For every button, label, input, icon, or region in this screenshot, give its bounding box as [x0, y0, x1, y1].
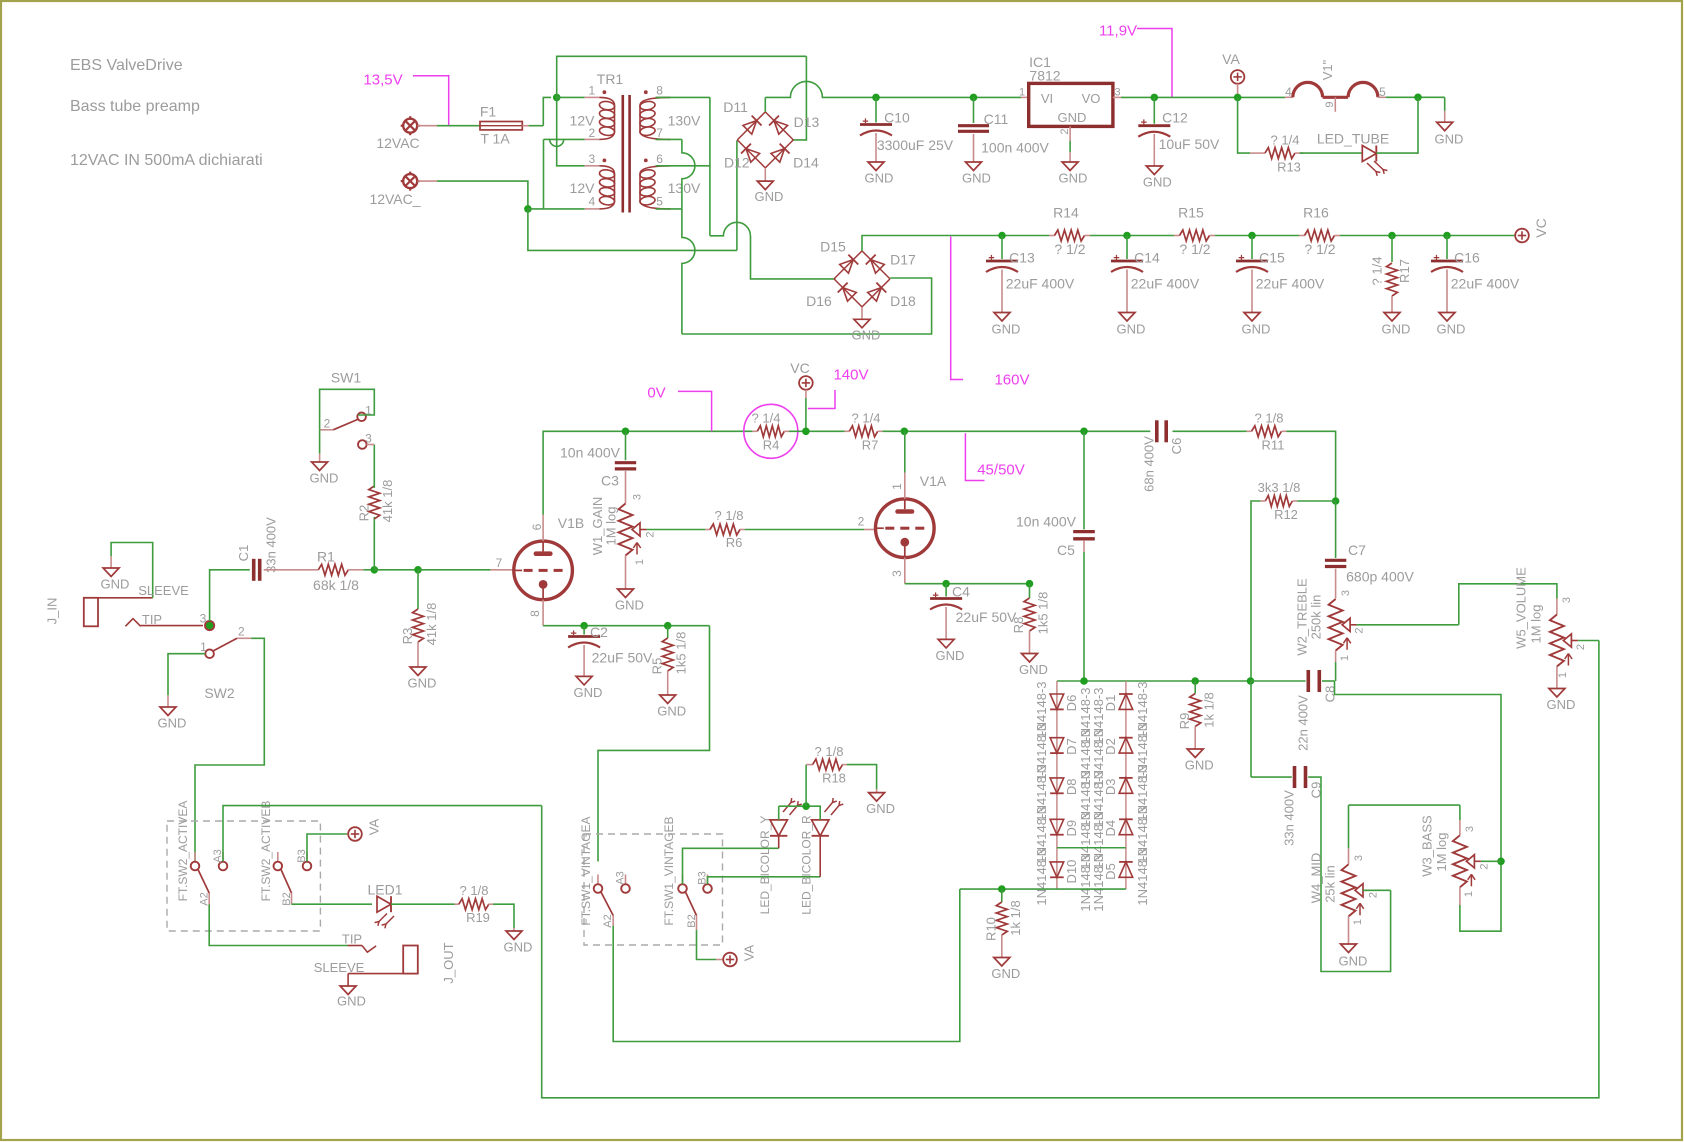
svg-text:FT.SW2_ACTIVEB: FT.SW2_ACTIVEB — [259, 801, 273, 902]
potentiometer W1_GAIN — [625, 471, 627, 504]
svg-text:V1B: V1B — [558, 515, 584, 531]
wire FT.SW2 B2 to LED1 — [291, 903, 293, 905]
svg-text:2: 2 — [1367, 892, 1379, 898]
capacitor C4 — [945, 584, 947, 597]
wire tip node to C1 — [210, 570, 250, 621]
ground under SW2 pin1 — [168, 654, 205, 696]
svg-text:1: 1 — [1463, 891, 1475, 897]
svg-text:22uF 50V: 22uF 50V — [592, 649, 653, 665]
ground under bridge2 — [861, 307, 863, 319]
svg-text:12V: 12V — [570, 112, 596, 128]
svg-text:T 1A: T 1A — [480, 131, 510, 147]
wire V1A plate pin1 — [904, 473, 906, 499]
svg-text:12V: 12V — [570, 180, 596, 196]
svg-text:6: 6 — [656, 152, 663, 166]
resistor R8 — [1029, 584, 1031, 598]
resistor R11 — [1247, 430, 1252, 432]
svg-text:R3: R3 — [400, 628, 415, 645]
svg-text:22uF 50V: 22uF 50V — [956, 609, 1017, 625]
svg-text:D16: D16 — [806, 293, 832, 309]
svg-text:? 1/4: ? 1/4 — [1370, 257, 1385, 286]
pad 12VAC — [403, 119, 417, 133]
svg-text:3: 3 — [1353, 855, 1365, 861]
svg-text:R4: R4 — [763, 438, 780, 453]
wire C8/C9 node down — [1250, 681, 1252, 777]
svg-text:D8: D8 — [1064, 778, 1079, 795]
wire W1 wiper to R6 — [647, 529, 706, 531]
IC1 pin2 to ground — [1069, 126, 1071, 141]
svg-text:Bass tube preamp: Bass tube preamp — [70, 98, 200, 115]
svg-text:GND: GND — [615, 598, 644, 613]
svg-text:3k3 1/8: 3k3 1/8 — [1258, 480, 1301, 495]
wire FT.SW1 B3 to LED_BICOLOR_R — [708, 877, 821, 884]
svg-text:TR1: TR1 — [597, 71, 624, 87]
wire IC1 output — [1113, 96, 1121, 98]
svg-text:VO: VO — [1082, 91, 1101, 106]
wire V1A cathode to C4 R8 — [904, 558, 906, 584]
diode bridge D15 D16 D17 D18 — [834, 251, 862, 279]
svg-text:22uF 400V: 22uF 400V — [1006, 275, 1075, 291]
svg-text:D9: D9 — [1064, 820, 1079, 837]
ground right of V1 — [1444, 111, 1446, 122]
svg-text:GND: GND — [1059, 171, 1088, 186]
svg-text:R5: R5 — [650, 658, 665, 675]
svg-text:GND: GND — [101, 577, 130, 592]
svg-text:250k lin: 250k lin — [1309, 595, 1324, 640]
terminal VA active — [348, 827, 362, 841]
diode bridge D11 D12 D13 D14 — [737, 112, 765, 140]
svg-text:GND: GND — [158, 716, 187, 731]
svg-text:2: 2 — [1059, 128, 1071, 134]
svg-text:5: 5 — [656, 195, 663, 209]
svg-text:GND: GND — [991, 966, 1020, 981]
svg-text:2: 2 — [644, 531, 656, 537]
svg-text:? 1/2: ? 1/2 — [1304, 241, 1335, 257]
resistor R1 — [318, 564, 348, 575]
svg-text:1: 1 — [1557, 672, 1569, 678]
wire W4 wiper stub — [1363, 889, 1391, 891]
diode D10 — [1050, 862, 1064, 877]
wire W2 wiper to W5_VOLUME — [1357, 624, 1459, 626]
svg-text:C7: C7 — [1348, 542, 1366, 558]
svg-text:B3: B3 — [696, 871, 708, 884]
resistor R18 — [805, 765, 807, 807]
resistor R2 — [373, 517, 375, 570]
capacitor C7 — [1335, 501, 1337, 558]
svg-text:+: + — [932, 590, 938, 602]
svg-text:VA: VA — [742, 944, 757, 961]
svg-text:D7: D7 — [1064, 738, 1079, 755]
ground under W5_VOLUME — [1556, 667, 1558, 689]
capacitor C11 — [970, 94, 978, 102]
wire to TR1 pin3 — [557, 97, 585, 165]
wire 12VAC live up and over to bridge D11-D14 right corner — [557, 56, 807, 97]
svg-text:1k5 1/8: 1k5 1/8 — [674, 632, 689, 675]
svg-text:R13: R13 — [1277, 160, 1301, 175]
svg-text:1N4148-3: 1N4148-3 — [1091, 854, 1106, 911]
svg-text:22n 400V: 22n 400V — [1296, 695, 1311, 751]
FT.SW1 A lever to A2 — [601, 892, 613, 916]
wire 12VAC to F1 — [418, 125, 438, 127]
svg-text:22uF 400V: 22uF 400V — [1131, 275, 1200, 291]
node V1A plate junction — [901, 428, 909, 436]
terminal VC above R4 — [799, 376, 813, 390]
svg-text:100n 400V: 100n 400V — [981, 139, 1049, 155]
capacitor C10 — [872, 94, 880, 102]
svg-text:R16: R16 — [1303, 204, 1329, 220]
TR1 core — [621, 95, 624, 213]
svg-text:GND: GND — [992, 322, 1021, 337]
ground under W1_GAIN — [625, 556, 627, 590]
diode chain D1-D5 right — [1125, 681, 1127, 889]
svg-text:1M log: 1M log — [1529, 604, 1544, 643]
capacitor C16 — [1446, 236, 1448, 260]
svg-text:1M log: 1M log — [1434, 832, 1449, 871]
svg-text:D11: D11 — [723, 99, 748, 115]
node 160V annotation — [951, 237, 963, 380]
wire TR1 pin6 stub — [656, 165, 710, 167]
svg-text:R17: R17 — [1397, 259, 1412, 283]
FT.SW1 B lever to B2 — [686, 892, 697, 916]
svg-text:4: 4 — [589, 195, 596, 209]
wire bottom rail to footswitch A2 bus — [613, 889, 960, 1041]
wire SW2 pin2 to footswitch A1 — [195, 638, 264, 861]
svg-text:C13: C13 — [1009, 249, 1035, 265]
wire FT.SW1 B1 to LED_BICOLOR_Y — [683, 848, 779, 884]
svg-text:13,5V: 13,5V — [363, 71, 402, 88]
svg-text:4: 4 — [1285, 85, 1292, 99]
capacitor C15 — [1251, 236, 1253, 260]
capacitor C2 — [583, 626, 585, 635]
triode V1A — [876, 499, 935, 558]
node C2 junction — [580, 622, 588, 630]
svg-text:D10: D10 — [1064, 860, 1079, 884]
svg-text:F1: F1 — [480, 103, 497, 119]
svg-text:11,9V: 11,9V — [1099, 22, 1137, 39]
svg-text:1k 1/8: 1k 1/8 — [1202, 692, 1217, 727]
svg-text:J_IN: J_IN — [45, 598, 60, 625]
svg-text:A3: A3 — [212, 849, 224, 862]
wire TR1 pin2 with hop — [550, 139, 585, 146]
capacitor C9 — [1251, 776, 1292, 778]
svg-text:GND: GND — [310, 471, 339, 486]
node R8 junction — [1026, 580, 1034, 588]
svg-text:45/50V: 45/50V — [977, 461, 1025, 478]
jack J_IN — [84, 598, 98, 627]
svg-text:1: 1 — [1339, 655, 1351, 661]
svg-text:3: 3 — [890, 570, 904, 577]
wire pins2+4 down to bridge D11-D14 left corner rail — [528, 209, 737, 251]
svg-text:3300uF 25V: 3300uF 25V — [877, 137, 954, 153]
svg-text:3: 3 — [365, 432, 372, 446]
node R10 junction — [998, 885, 1006, 893]
resistor R19 — [455, 903, 460, 905]
svg-text:GND: GND — [1546, 697, 1575, 712]
svg-text:12VAC_: 12VAC_ — [369, 191, 420, 207]
svg-text:7: 7 — [496, 556, 503, 570]
capacitor C1 — [252, 559, 256, 581]
svg-text:A2: A2 — [602, 914, 614, 927]
svg-text:C5: C5 — [1057, 542, 1075, 558]
wire C9 to W4 wiper — [1308, 777, 1390, 971]
svg-text:? 1/4: ? 1/4 — [752, 410, 781, 425]
wire TR1 pin8+pin6 to bridge D15-D18 left corner — [656, 96, 710, 98]
svg-text:? 1/8: ? 1/8 — [815, 744, 844, 759]
svg-text:C15: C15 — [1259, 249, 1285, 265]
resistor R5 — [667, 626, 669, 638]
J_IN sleeve wire to ground — [98, 597, 153, 599]
diode D7 — [1050, 738, 1064, 753]
wire R16 to VC terminal — [1340, 235, 1515, 237]
node W3 wiper junction — [1497, 858, 1505, 866]
svg-text:SLEEVE: SLEEVE — [138, 583, 189, 598]
footswitch FT.SW2 B3 pin — [306, 852, 308, 862]
diode D3 — [1119, 778, 1133, 793]
svg-text:R1: R1 — [317, 548, 335, 564]
wire C6 to R11 — [1173, 430, 1247, 432]
svg-text:LED_BICOLOR_R: LED_BICOLOR_R — [800, 815, 814, 915]
resistor R14 — [998, 232, 1006, 240]
svg-text:5: 5 — [1379, 85, 1386, 99]
resistor R6 — [705, 529, 710, 531]
potentiometer W5_VOLUME — [1556, 599, 1558, 615]
potentiometer W2_TREBLE — [1335, 569, 1337, 599]
svg-text:V1": V1" — [1320, 59, 1335, 80]
resistor R4 with magenta circle — [752, 430, 757, 432]
svg-text:GND: GND — [1117, 322, 1146, 337]
capacitor C13 — [1001, 236, 1003, 260]
diode D9 — [1050, 819, 1064, 834]
svg-text:D15: D15 — [820, 238, 846, 254]
svg-text:A3: A3 — [614, 871, 626, 884]
svg-text:C16: C16 — [1454, 249, 1480, 265]
footswitch FT.SW1 B3 pin — [707, 875, 709, 885]
svg-text:R7: R7 — [862, 438, 879, 453]
wire R7 to V1A and C6 — [883, 430, 1151, 432]
ground under C11 — [966, 162, 982, 171]
terminal VA vintage — [723, 953, 737, 967]
wire R18 to ground — [847, 765, 877, 789]
svg-text:2: 2 — [1478, 863, 1490, 869]
svg-text:? 1/2: ? 1/2 — [1179, 241, 1210, 257]
resistor R9 — [1194, 681, 1196, 694]
svg-text:R2: R2 — [357, 505, 372, 522]
svg-text:GND: GND — [504, 940, 533, 955]
svg-text:33n 400V: 33n 400V — [1282, 790, 1297, 846]
J_IN tip contact — [125, 619, 140, 627]
svg-text:W5_VOLUME: W5_VOLUME — [1514, 567, 1529, 649]
svg-text:1: 1 — [589, 84, 596, 98]
svg-text:LED_BICOLOR_Y: LED_BICOLOR_Y — [758, 816, 772, 915]
footswitch FT.SW1 A1 pin — [597, 875, 599, 885]
footswitch FT.SW2 B1 pin — [277, 852, 279, 862]
svg-text:V1A: V1A — [920, 473, 947, 489]
svg-text:R19: R19 — [466, 910, 490, 925]
wire C8 to W2 pin1 and W3 wiper — [1322, 680, 1335, 682]
svg-text:1M log: 1M log — [604, 506, 619, 545]
svg-text:8: 8 — [656, 84, 663, 98]
svg-text:C14: C14 — [1134, 249, 1160, 265]
wire W3 pin1 stub — [1459, 887, 1461, 905]
resistor R10 — [1001, 889, 1003, 902]
svg-text:C1: C1 — [236, 545, 251, 562]
svg-text:10uF 50V: 10uF 50V — [1159, 136, 1220, 152]
svg-text:FT.SW1_VINTAGEB: FT.SW1_VINTAGEB — [662, 816, 676, 925]
wire C5 to diode clipper rail — [1083, 541, 1085, 552]
svg-text:GND: GND — [866, 801, 895, 816]
svg-text:R9: R9 — [1177, 713, 1192, 730]
wire TR1 pin7+pin5 to bridge D15-D18 right corner — [656, 138, 682, 140]
svg-text:2: 2 — [238, 625, 245, 639]
svg-text:3: 3 — [1464, 826, 1476, 832]
node junction pins1+3 — [553, 94, 561, 102]
ground under W4_MID — [1348, 916, 1350, 944]
svg-text:1: 1 — [634, 559, 646, 565]
fuse F1 — [480, 122, 522, 130]
wire R19 to ground — [493, 904, 514, 928]
wire R12 left down to C8/C9 node — [1251, 501, 1261, 681]
svg-text:GND: GND — [962, 171, 991, 186]
footswitch FT.SW2 A3 pin — [222, 852, 224, 862]
svg-text:R18: R18 — [822, 771, 846, 786]
svg-text:22uF 400V: 22uF 400V — [1256, 275, 1325, 291]
wire W5 wiper to output bus — [1578, 640, 1599, 642]
svg-text:D17: D17 — [890, 252, 916, 268]
svg-text:SW1: SW1 — [331, 369, 362, 385]
svg-text:R12: R12 — [1274, 507, 1298, 522]
resistor R16 — [1299, 235, 1305, 237]
svg-text:C6: C6 — [1169, 438, 1184, 455]
svg-text:D13: D13 — [794, 114, 820, 130]
capacitor C5 — [1080, 428, 1088, 436]
svg-text:41k 1/8: 41k 1/8 — [424, 603, 439, 646]
node junction pins2+4 — [524, 205, 532, 213]
svg-text:FT.SW1_VINTAGEA: FT.SW1_VINTAGEA — [579, 816, 593, 925]
svg-text:680p 400V: 680p 400V — [1346, 568, 1414, 584]
svg-text:1N4148-3: 1N4148-3 — [1135, 848, 1150, 905]
svg-text:10n 400V: 10n 400V — [560, 444, 621, 460]
capacitor C8 — [1251, 680, 1306, 682]
capacitor C3 — [625, 431, 627, 460]
svg-text:7: 7 — [656, 126, 663, 140]
SW1 frame wire — [320, 389, 375, 430]
svg-text:W2_TREBLE: W2_TREBLE — [1295, 578, 1310, 656]
pad 12VAC_ — [403, 174, 417, 188]
svg-text:12VAC IN 500mA dichiarati: 12VAC IN 500mA dichiarati — [70, 152, 263, 169]
svg-text:1: 1 — [890, 483, 904, 490]
capacitor C14 — [1126, 236, 1128, 260]
svg-text:+: + — [1141, 117, 1147, 129]
svg-text:C4: C4 — [952, 583, 970, 599]
svg-text:R8: R8 — [1011, 617, 1026, 634]
svg-text:1k 1/8: 1k 1/8 — [1008, 900, 1023, 935]
svg-text:GND: GND — [1143, 175, 1172, 190]
svg-text:160V: 160V — [994, 371, 1029, 388]
svg-text:D18: D18 — [890, 293, 916, 309]
diode D5 — [1119, 862, 1133, 877]
svg-text:SW2: SW2 — [204, 685, 235, 701]
svg-text:? 1/4: ? 1/4 — [1271, 133, 1300, 148]
diode D4 — [1119, 819, 1133, 834]
svg-text:? 1/8: ? 1/8 — [1255, 410, 1284, 425]
svg-text:R6: R6 — [726, 535, 743, 550]
wire R4 to R7 — [789, 430, 845, 432]
node C3 junction — [622, 428, 630, 436]
svg-text:8: 8 — [528, 610, 542, 617]
svg-text:3: 3 — [1114, 86, 1120, 98]
capacitor C6 — [1155, 420, 1159, 442]
svg-text:B3: B3 — [296, 849, 308, 862]
ground under C10 — [868, 162, 884, 171]
svg-text:GND: GND — [1242, 322, 1271, 337]
potentiometer W3_BASS — [1349, 804, 1460, 806]
svg-text:68k 1/8: 68k 1/8 — [313, 577, 359, 593]
svg-text:3: 3 — [631, 494, 643, 500]
svg-text:B2: B2 — [686, 914, 698, 927]
svg-text:9: 9 — [1324, 101, 1336, 107]
diode chain D6-D10 left — [1056, 681, 1058, 889]
svg-text:LED1: LED1 — [367, 881, 402, 897]
wire FT.SW2 B3 to VA — [307, 834, 347, 862]
svg-text:LED_TUBE: LED_TUBE — [1317, 130, 1389, 146]
svg-text:VI: VI — [1041, 91, 1053, 106]
J_OUT sleeve to ground — [348, 973, 403, 975]
resistor R17 — [1391, 236, 1393, 263]
wire main 12V DC rail from bridge1 top — [764, 97, 766, 112]
footswitch FT.SW2 dashed box — [167, 821, 320, 931]
capacitor C12 — [1151, 94, 1159, 102]
svg-text:GND: GND — [337, 994, 366, 1009]
svg-text:W3_BASS: W3_BASS — [1420, 815, 1435, 877]
wire LED_TUBE to rail — [1376, 97, 1418, 153]
node R5 junction — [664, 622, 672, 630]
footswitch FT.SW1 dashed box — [584, 834, 723, 945]
svg-text:R15: R15 — [1178, 204, 1204, 220]
wire V1 pin5 to GND corner — [1386, 96, 1445, 98]
svg-text:1: 1 — [1352, 919, 1364, 925]
svg-text:+: + — [862, 116, 868, 128]
FT.SW2 A lever to A2 — [198, 870, 209, 894]
svg-text:130V: 130V — [668, 180, 701, 196]
resistor R3 — [417, 570, 419, 609]
svg-text:TIP: TIP — [342, 932, 362, 947]
svg-text:J_OUT: J_OUT — [441, 942, 456, 983]
svg-text:12VAC: 12VAC — [376, 135, 419, 151]
svg-text:VC: VC — [790, 360, 809, 376]
node R3 junction — [414, 566, 422, 574]
svg-text:GND: GND — [755, 189, 784, 204]
svg-text:GND: GND — [1019, 662, 1048, 677]
svg-text:GND: GND — [657, 704, 686, 719]
svg-text:GND: GND — [852, 327, 881, 342]
diode D2 — [1119, 738, 1133, 753]
svg-text:22uF 400V: 22uF 400V — [1451, 275, 1520, 291]
svg-text:VC: VC — [1533, 218, 1549, 237]
svg-text:41k 1/8: 41k 1/8 — [380, 480, 395, 523]
wire mid link between chains — [1057, 847, 1126, 849]
svg-text:VA: VA — [367, 818, 382, 835]
svg-text:R14: R14 — [1053, 204, 1079, 220]
svg-text:140V: 140V — [833, 366, 868, 383]
ground under SW1 pin2 — [319, 430, 321, 454]
terminal VA — [1231, 70, 1245, 84]
resistor R15 — [1174, 235, 1180, 237]
footswitch FT.SW2 A1 pin — [194, 852, 196, 862]
svg-text:68n 400V: 68n 400V — [1142, 436, 1157, 492]
ground under C12 — [1146, 166, 1162, 175]
SW1 lever — [333, 420, 357, 430]
resistor R12 — [1332, 497, 1340, 505]
